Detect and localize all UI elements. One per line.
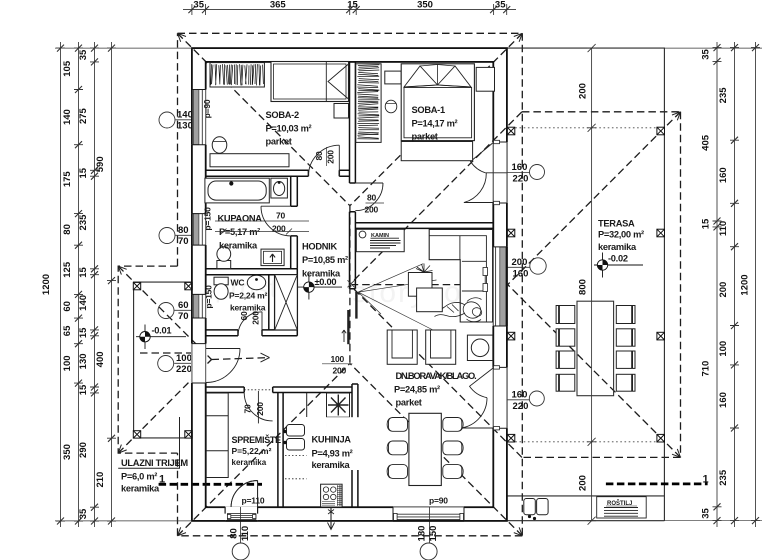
- entrance door arc: [231, 481, 258, 508]
- wall F between doors: [350, 212, 356, 289]
- svg-text:15: 15: [78, 327, 89, 338]
- svg-text:130: 130: [177, 121, 193, 132]
- bed soba2: [271, 62, 349, 102]
- porch hip top: [118, 266, 211, 359]
- svg-text:60: 60: [178, 300, 189, 311]
- svg-text:200: 200: [326, 150, 336, 164]
- terasa beam dotted top: [507, 127, 665, 129]
- terasa table: [577, 301, 614, 396]
- label 160/220 soba1 door: [507, 162, 545, 185]
- roof corner arrowheads: [118, 33, 680, 536]
- living door leaves: [470, 368, 494, 398]
- main roof outline bottom edge: [178, 535, 523, 537]
- svg-text:1: 1: [159, 474, 165, 486]
- porch ridge: [212, 358, 270, 360]
- svg-text:200: 200: [718, 282, 729, 298]
- svg-text:200: 200: [365, 205, 379, 215]
- svg-text:220: 220: [513, 174, 529, 185]
- svg-text:400: 400: [95, 351, 106, 367]
- svg-text:keramika: keramika: [219, 240, 258, 250]
- svg-text:140: 140: [177, 110, 193, 121]
- svg-text:140: 140: [78, 295, 89, 311]
- exterior wall outer face: [192, 48, 507, 521]
- terasa roof bottom edge: [522, 456, 681, 458]
- terasa ridge: [352, 284, 508, 286]
- svg-text:235: 235: [718, 469, 729, 486]
- svg-text:160: 160: [718, 392, 729, 408]
- side table with lamp: [467, 335, 492, 360]
- svg-text:110: 110: [718, 221, 729, 236]
- chain rooms left: [91, 42, 98, 527]
- restore outer wall edges across windows: [192, 90, 507, 521]
- svg-text:80: 80: [229, 528, 240, 539]
- terasa roof top edge: [522, 111, 681, 113]
- window label circle 60/70: [158, 303, 192, 319]
- wardrobe soba1: [356, 64, 381, 143]
- svg-text:110: 110: [240, 526, 251, 541]
- svg-text:P=6,0 m²: P=6,0 m²: [121, 472, 157, 482]
- hip BL: [178, 363, 350, 535]
- vase on nightstand: [385, 100, 397, 113]
- chain total right: [752, 42, 759, 527]
- svg-text:±0.00: ±0.00: [315, 277, 337, 287]
- svg-text:160: 160: [512, 162, 528, 173]
- svg-text:200: 200: [578, 475, 589, 491]
- wall E kupaona right: [291, 176, 298, 206]
- svg-text:KUPAONA: KUPAONA: [218, 214, 263, 224]
- entrance door p=110: [231, 481, 258, 508]
- toilet wc: [214, 277, 228, 299]
- svg-text:70: 70: [243, 404, 253, 414]
- terasa posts: [507, 127, 664, 442]
- svg-text:235: 235: [718, 87, 729, 104]
- toilet kupaona: [217, 247, 231, 269]
- wall B kupaona bottom: [206, 269, 298, 275]
- washbasin wc: [247, 275, 265, 290]
- label 200/160 living window: [507, 257, 546, 280]
- kuhinja left wall: [278, 393, 283, 508]
- window soba2 140: [191, 90, 207, 145]
- svg-text:SPREMIŠTE: SPREMIŠTE: [232, 434, 282, 445]
- svg-text:p=90: p=90: [429, 496, 448, 506]
- svg-text:35: 35: [78, 508, 89, 519]
- svg-text:1200: 1200: [740, 274, 751, 295]
- svg-text:-0.02: -0.02: [608, 254, 628, 264]
- hip TL: [178, 33, 350, 205]
- door frame thin lines and window inner faces: [192, 90, 507, 508]
- terasa roof right edge: [680, 112, 682, 458]
- svg-text:80: 80: [314, 151, 324, 161]
- porch ridge arrow: [261, 353, 270, 362]
- svg-text:parket: parket: [396, 398, 422, 408]
- svg-text:80: 80: [367, 193, 377, 203]
- watermark: [215, 273, 463, 309]
- svg-text:100: 100: [176, 353, 192, 364]
- kupaona door: [261, 206, 291, 236]
- terasa valley top: [350, 112, 522, 284]
- dining table: [409, 413, 441, 485]
- svg-text:35: 35: [701, 508, 712, 519]
- hip TR: [350, 33, 522, 205]
- soba1 door from hodnik: [355, 183, 383, 211]
- porch door opening 100: [191, 344, 240, 383]
- svg-text:800: 800: [578, 279, 589, 295]
- wall F lower: [352, 384, 358, 507]
- svg-text:SOBA-1: SOBA-1: [412, 105, 445, 115]
- wall B1 soba1 bottom: [355, 223, 493, 229]
- svg-text:200: 200: [512, 257, 528, 268]
- porch hip bottom: [118, 360, 211, 454]
- svg-text:140: 140: [62, 109, 73, 125]
- porch posts: [133, 282, 192, 438]
- svg-text:235: 235: [78, 214, 89, 231]
- hip BR: [350, 363, 522, 535]
- main roof left edge lower: [177, 33, 179, 266]
- svg-text:15: 15: [78, 384, 89, 395]
- sliding door at wall F: [342, 292, 357, 344]
- svg-text:keramika: keramika: [312, 460, 351, 470]
- svg-text:ULAZNI TRIJEM: ULAZNI TRIJEM: [121, 458, 188, 468]
- extension lines corners: [55, 48, 762, 521]
- plant: [416, 264, 433, 281]
- desk soba2: [210, 154, 289, 167]
- svg-text:P=24,85 m²: P=24,85 m²: [394, 385, 440, 395]
- svg-text:15: 15: [78, 267, 89, 278]
- shower drain square kupaona: [261, 249, 284, 266]
- kamin: [356, 229, 404, 251]
- wall C wc bottom: [206, 330, 238, 336]
- svg-text:keramika: keramika: [230, 303, 266, 313]
- svg-text:p=90: p=90: [202, 99, 212, 118]
- exterior wall inner face: [206, 62, 494, 507]
- svg-text:65: 65: [62, 325, 73, 336]
- svg-text:p=150: p=150: [204, 285, 214, 309]
- washbasin kupaona: [271, 178, 288, 198]
- svg-text:80: 80: [178, 225, 189, 236]
- coffee tables: [408, 273, 442, 312]
- svg-text:P=32,00 m²: P=32,00 m²: [598, 230, 644, 240]
- svg-text:125: 125: [62, 261, 73, 278]
- svg-text:710: 710: [701, 361, 712, 377]
- fan sight lines: [348, 264, 437, 330]
- svg-text:200: 200: [255, 402, 265, 416]
- svg-text:175: 175: [62, 171, 73, 188]
- dining chairs left: [387, 418, 407, 479]
- wardrobe soba2: [210, 63, 264, 87]
- bed soba1: [401, 64, 474, 141]
- svg-text:35: 35: [78, 49, 89, 60]
- svg-text:70: 70: [178, 311, 189, 322]
- dining window leader 180/150: [417, 507, 440, 560]
- svg-text:storyco: storyco: [352, 276, 463, 309]
- section line 1 right: [606, 482, 708, 485]
- terasa valley bottom: [350, 285, 522, 457]
- svg-text:365: 365: [270, 0, 287, 11]
- bathtub: [205, 178, 269, 203]
- svg-text:WC: WC: [231, 278, 245, 288]
- svg-text:KUHINJA: KUHINJA: [312, 435, 352, 445]
- terasa chairs right: [616, 306, 635, 392]
- svg-text:P=5,17 m²: P=5,17 m²: [219, 227, 260, 237]
- svg-text:keramika: keramika: [232, 458, 267, 467]
- svg-text:200: 200: [251, 311, 261, 325]
- terasa hip top: [508, 112, 681, 285]
- closet with X: [275, 275, 298, 330]
- svg-text:35: 35: [701, 49, 712, 60]
- svg-text:60: 60: [239, 311, 249, 321]
- wall D hall bottom: [206, 387, 245, 393]
- svg-text:405: 405: [701, 134, 712, 151]
- kuhinja label box: [307, 417, 370, 470]
- door leaf porch door: [206, 348, 240, 350]
- rostilj (grill): [597, 497, 647, 518]
- kitchen vent arrow: [328, 507, 335, 530]
- svg-text:p=110: p=110: [242, 496, 265, 506]
- nightstand soba2: [334, 104, 349, 119]
- svg-text:100: 100: [718, 341, 729, 357]
- kupaona hidden dim line: [215, 229, 309, 235]
- dining chairs right: [443, 418, 463, 479]
- kitchen sink: [283, 425, 304, 451]
- stool soba2: [212, 137, 227, 153]
- svg-text:210: 210: [95, 472, 106, 488]
- svg-text:keramika: keramika: [121, 484, 160, 494]
- window label circle 80/70: [159, 228, 206, 244]
- person on sofa: [432, 298, 484, 322]
- chain detail right: [714, 42, 721, 527]
- svg-text:70: 70: [178, 236, 189, 247]
- stove: [321, 484, 343, 507]
- svg-text:P=10,03 m²: P=10,03 m²: [266, 123, 312, 133]
- chain detail left: [75, 42, 82, 527]
- svg-text:15: 15: [78, 167, 89, 178]
- svg-text:P=2,24 m²: P=2,24 m²: [229, 291, 267, 301]
- svg-text:P=5,22 m²: P=5,22 m²: [232, 446, 272, 456]
- shelves: [206, 393, 228, 478]
- soba2 door leaf and arc: [308, 145, 339, 176]
- svg-text:105: 105: [62, 60, 73, 77]
- chain major left: [108, 42, 115, 527]
- window label circle 140/130: [159, 112, 206, 128]
- soba1 door leaves: [471, 143, 494, 174]
- entrance niche bottom wall: [225, 481, 258, 522]
- svg-text:P=10,85 m²: P=10,85 m²: [302, 255, 348, 265]
- svg-text:220: 220: [513, 401, 529, 412]
- entrance door leader 80/110: [229, 507, 252, 560]
- svg-text:220: 220: [176, 364, 192, 375]
- living window 200 right wall: [493, 247, 508, 326]
- sofa L: [429, 229, 492, 322]
- svg-text:35: 35: [193, 0, 204, 11]
- door label circle 100/220: [158, 356, 192, 372]
- nightstand left soba1: [385, 71, 401, 84]
- svg-text:1: 1: [703, 474, 709, 486]
- wall F partition upper: [350, 62, 356, 183]
- nightstand right soba1: [476, 67, 494, 91]
- terasa slab outline: [507, 48, 665, 521]
- svg-text:DN.BORAVAK/BLAGO.: DN.BORAVAK/BLAGO.: [396, 371, 477, 381]
- threshold: [227, 514, 256, 520]
- main roof left edge upper: [177, 453, 179, 536]
- svg-text:275: 275: [78, 107, 89, 124]
- main roof outline right edge: [521, 33, 523, 536]
- svg-text:160: 160: [718, 167, 729, 183]
- svg-text:100: 100: [331, 354, 345, 364]
- svg-text:P=4,93 m²: P=4,93 m²: [312, 448, 353, 458]
- hall dashed line: [140, 352, 206, 354]
- level marker +-0.00: [298, 275, 342, 300]
- counter left: [285, 393, 307, 479]
- chain total 1200: [57, 42, 64, 527]
- wc door: [238, 312, 262, 336]
- svg-text:-0.01: -0.01: [152, 326, 172, 336]
- svg-text:HODNIK: HODNIK: [302, 242, 337, 252]
- terasa chairs left: [556, 306, 575, 392]
- svg-text:200: 200: [578, 83, 589, 99]
- svg-text:SOBA-2: SOBA-2: [266, 110, 299, 120]
- hodnik left edge along closet: [296, 275, 298, 330]
- svg-text:160: 160: [513, 269, 529, 280]
- dining window 180 bottom wall: [393, 506, 464, 521]
- window kupaona 80: [191, 214, 207, 246]
- svg-text:p=150: p=150: [203, 207, 213, 231]
- svg-text:80: 80: [62, 224, 73, 235]
- armchair left: [387, 330, 417, 364]
- svg-text:150: 150: [428, 526, 439, 542]
- porch level marker -0.01: [136, 325, 186, 350]
- window wc 60: [191, 294, 207, 318]
- svg-text:350: 350: [62, 444, 73, 460]
- svg-text:350: 350: [417, 0, 433, 11]
- porch roof outline: [118, 266, 177, 453]
- terasa level marker -0.02: [594, 253, 643, 278]
- terasa beam dotted bottom: [507, 441, 665, 443]
- svg-text:keramika: keramika: [598, 242, 637, 252]
- svg-text:P=14,17 m²: P=14,17 m²: [412, 118, 458, 128]
- svg-text:parket: parket: [412, 132, 438, 142]
- svg-text:100: 100: [62, 355, 73, 371]
- terasa dim line 200/800/200: [587, 44, 596, 525]
- wc right wall: [269, 275, 275, 330]
- svg-text:15: 15: [347, 0, 358, 11]
- label 160/220 living door: [507, 390, 544, 413]
- svg-text:60: 60: [62, 301, 73, 312]
- living terasa door opening 160: [461, 366, 507, 430]
- svg-text:15: 15: [701, 218, 712, 229]
- svg-text:180: 180: [417, 526, 428, 542]
- svg-text:1200: 1200: [41, 274, 52, 295]
- svg-text:160: 160: [512, 390, 528, 401]
- vent square with fan: [327, 393, 350, 417]
- svg-text:130: 130: [78, 353, 89, 369]
- bench soba1: [401, 142, 472, 161]
- svg-text:200: 200: [333, 366, 347, 376]
- spremiste door: [244, 390, 273, 424]
- svg-text:200: 200: [272, 224, 286, 234]
- pillows: [404, 66, 438, 87]
- porch slab outline: [134, 282, 192, 438]
- main ridge: [349, 206, 351, 364]
- soba1 terasa door opening 160: [464, 140, 508, 204]
- small wall items: [483, 268, 488, 276]
- wall A soba2 bottom: [206, 170, 309, 176]
- svg-text:TERASA: TERASA: [598, 218, 635, 228]
- svg-text:290: 290: [78, 442, 89, 458]
- svg-text:70: 70: [276, 211, 286, 221]
- svg-text:35: 35: [495, 0, 506, 11]
- terasa hip bottom: [508, 285, 681, 458]
- svg-text:parket: parket: [266, 137, 292, 147]
- section line 1 left: [159, 483, 262, 486]
- main roof outline top edge: [178, 32, 523, 34]
- chain mid right: [731, 42, 738, 527]
- armchair right: [426, 330, 456, 364]
- outdoor sink: [524, 499, 548, 521]
